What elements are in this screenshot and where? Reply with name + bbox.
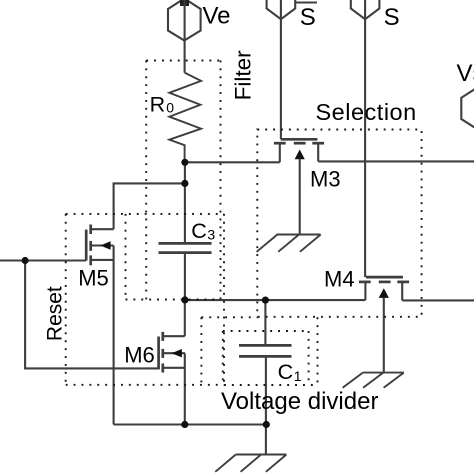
- wire node3 to M4 drain: [185, 299, 366, 301]
- Filter dotted box: [146, 60, 220, 62]
- svg-text:M4: M4: [324, 266, 355, 291]
- wire C3 to node3: [184, 253, 186, 300]
- svg-text:M6: M6: [124, 343, 155, 368]
- node D (C1 top junction): [262, 297, 269, 304]
- wire C1 bottom to ground: [265, 356, 267, 454]
- port Ve hexagon: [168, 0, 201, 41]
- transistor M6: [159, 300, 185, 425]
- resistor R0: [169, 73, 201, 163]
- svg-text:S: S: [300, 4, 316, 31]
- wire S-bar to M3 gate: [280, 0, 282, 139]
- wire node2 to C3: [184, 183, 186, 243]
- svg-text:Reset: Reset: [44, 286, 67, 341]
- svg-text:Filter: Filter: [230, 50, 255, 101]
- svg-text:Vs: Vs: [457, 60, 474, 87]
- node A (R0/M3 drain junction): [181, 159, 188, 166]
- svg-text:Selection: Selection: [316, 99, 417, 125]
- capacitor C1: [264, 300, 266, 345]
- svg-text:C: C: [191, 219, 207, 243]
- svg-text:Voltage divider: Voltage divider: [221, 388, 378, 415]
- wire Ve vertical: [184, 0, 186, 73]
- wire S to M4 gate: [364, 0, 366, 277]
- transistor M5: [86, 225, 113, 425]
- ground (bottom center): [215, 455, 286, 472]
- wire M4 source to right edge: [402, 299, 474, 301]
- transistor M4: [359, 277, 409, 373]
- node C (C3 bottom junction): [181, 296, 188, 303]
- wire node1 to node2: [184, 162, 186, 183]
- ground (M3 bulk): [257, 235, 321, 252]
- wire M3 source to right edge: [318, 160, 474, 162]
- Reset dotted box: [66, 213, 224, 215]
- node G (rail-ground junction): [263, 421, 270, 428]
- wire node1 to M3 drain: [185, 161, 280, 163]
- ground (M4 bulk): [343, 373, 404, 388]
- svg-text:Ve: Ve: [203, 3, 231, 30]
- port S-bar hexagon: [267, 0, 296, 19]
- transistor M3: [274, 139, 324, 234]
- Voltage divider outer dotted box: [201, 316, 258, 318]
- svg-text:3: 3: [207, 227, 215, 243]
- Voltage divider inner dotted box: [223, 330, 309, 332]
- port Ve pin square: [180, 0, 189, 6]
- Selection dotted box: [257, 130, 421, 317]
- wire node2 to M5 drain: [114, 183, 185, 229]
- bottom rail wire: [114, 423, 267, 425]
- node F (rail-M6 junction): [181, 421, 188, 428]
- svg-text:C: C: [278, 360, 294, 384]
- svg-text:M5: M5: [78, 265, 109, 290]
- C3 inner dotted box: [125, 214, 127, 300]
- overline of S-bar label: [296, 1, 318, 3]
- wire reset branch down: [25, 261, 159, 369]
- svg-text:M3: M3: [310, 166, 341, 191]
- port S hexagon: [351, 0, 380, 19]
- wire M5 gate (reset input): [0, 259, 86, 261]
- port V (right edge) hexagon: [461, 87, 474, 129]
- svg-text:1: 1: [294, 368, 302, 384]
- node B (M5 drain junction): [181, 180, 188, 187]
- svg-text:0: 0: [166, 100, 174, 116]
- capacitor C3: [159, 243, 212, 252]
- svg-text:S: S: [384, 4, 400, 31]
- svg-text:R: R: [150, 93, 166, 117]
- node E (reset branch junction): [22, 257, 29, 264]
